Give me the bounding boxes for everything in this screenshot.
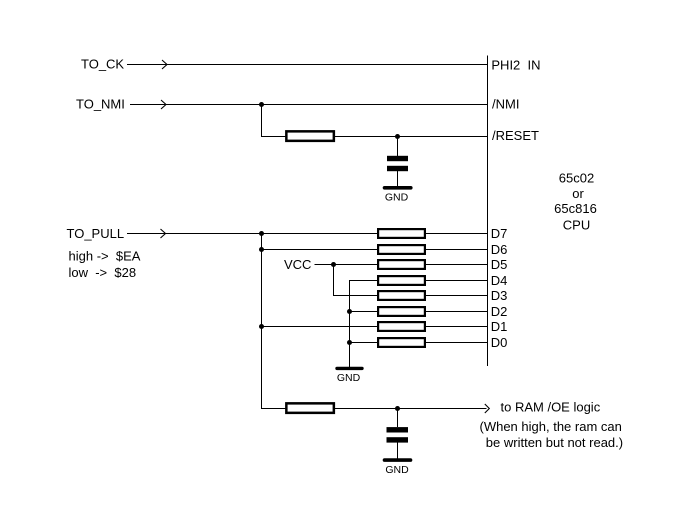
svg-text:D0: D0	[491, 335, 508, 350]
wire D6 right lead	[425, 249, 488, 251]
wire C1 to ground	[397, 171, 399, 186]
svg-text:D5: D5	[491, 257, 508, 272]
svg-text:low -> $28: low -> $28	[69, 265, 137, 280]
node junction NMI-RESET tap	[259, 102, 264, 107]
wire C2 to ground	[397, 443, 399, 459]
wire vertical from /NMI down to /RESET row	[261, 105, 263, 137]
node junction D1 tap	[259, 324, 264, 329]
svg-text:GND: GND	[337, 372, 361, 384]
wire D0 left lead	[349, 342, 378, 344]
wire TO_CK to PHI2 IN	[127, 64, 488, 66]
svg-text:CPU: CPU	[563, 217, 590, 232]
wire D4 right lead	[425, 280, 488, 282]
wire to resistor R1	[261, 136, 286, 138]
svg-text:(When high, the ram can: (When high, the ram can	[480, 419, 622, 434]
arrow to RAM /OE logic	[485, 404, 490, 413]
svg-text:TO_PULL: TO_PULL	[67, 226, 125, 241]
node junction reset cap tap	[395, 134, 400, 139]
ground GND (bus resistor pulldown)	[337, 368, 362, 383]
wire down to capacitor C2	[397, 409, 399, 428]
svg-text:D3: D3	[491, 288, 508, 303]
node junction VCC / D5	[331, 262, 336, 267]
node junction D6 tap	[259, 247, 264, 252]
wire R2 to RAM /OE logic	[335, 408, 487, 410]
svg-text:VCC: VCC	[284, 257, 311, 272]
svg-text:D1: D1	[491, 319, 508, 334]
CPU left-edge bus line	[487, 56, 489, 367]
svg-text:high -> $EA: high -> $EA	[69, 248, 141, 263]
arrow on TO_CK wire	[162, 60, 167, 69]
svg-text:PHI2 IN: PHI2 IN	[491, 58, 540, 73]
wire TO_PULL to D7 resistor	[127, 233, 378, 235]
wire R1 to /RESET pin	[335, 136, 488, 138]
resistor R2 (RAM /OE series)	[286, 403, 334, 413]
resistor RN D0	[378, 338, 425, 347]
wire VCC lead	[315, 264, 334, 266]
wire D3 right lead	[425, 295, 488, 297]
svg-text:D4: D4	[491, 273, 508, 288]
capacitor C2	[387, 427, 409, 443]
ground GND (reset cap)	[385, 188, 411, 204]
svg-text:TO_CK: TO_CK	[81, 57, 124, 72]
node junction bottom cap tap	[395, 406, 400, 411]
svg-text:/NMI: /NMI	[492, 97, 519, 112]
wire D1 left lead	[261, 326, 378, 328]
node junction TO_PULL / D7	[259, 231, 264, 236]
wire D5 left lead	[333, 264, 378, 266]
wire ground vertical x=349	[349, 281, 351, 368]
wire D2 left lead	[349, 311, 378, 313]
resistor RN D3	[378, 291, 425, 300]
capacitor C1	[387, 156, 408, 171]
wire D7 right lead	[425, 233, 488, 235]
ground GND (RAM /OE cap)	[385, 460, 411, 476]
svg-text:65c816: 65c816	[554, 201, 597, 216]
arrow on TO_PULL wire	[161, 229, 166, 238]
node junction D0 tap	[347, 340, 352, 345]
wire vertical bus tap x=261	[261, 234, 263, 409]
svg-text:or: or	[572, 186, 584, 201]
wire D1 right lead	[425, 326, 488, 328]
wire D2 right lead	[425, 311, 488, 313]
svg-text:D6: D6	[491, 242, 508, 257]
svg-text:/RESET: /RESET	[492, 128, 539, 143]
wire D5 right lead	[425, 264, 488, 266]
wire D4 left lead	[349, 280, 378, 282]
svg-text:GND: GND	[385, 464, 409, 476]
wire down to capacitor C1	[397, 137, 399, 157]
resistor RN D7	[378, 229, 425, 238]
resistor RN D1	[378, 322, 425, 331]
svg-text:GND: GND	[385, 192, 409, 204]
svg-text:65c02: 65c02	[559, 170, 594, 185]
svg-text:to RAM /OE logic: to RAM /OE logic	[501, 400, 601, 415]
arrow on TO_NMI wire	[161, 100, 166, 109]
wire VCC vertical to D3	[333, 265, 335, 296]
resistor RN D4	[378, 276, 425, 285]
resistor RN D2	[378, 307, 425, 316]
svg-text:be written but not read.): be written but not read.)	[486, 435, 623, 450]
resistor R1 (reset series)	[286, 131, 334, 141]
wire TO_NMI to /NMI	[130, 104, 488, 106]
svg-text:TO_NMI: TO_NMI	[76, 97, 125, 112]
node junction D2 tap	[347, 309, 352, 314]
wire D3 left lead	[333, 295, 378, 297]
wire D0 right lead	[425, 342, 488, 344]
resistor RN D6	[378, 245, 425, 254]
wire D6 left lead	[261, 249, 378, 251]
resistor RN D5	[378, 260, 425, 269]
label 65c02 or 65c816 CPU	[554, 170, 597, 232]
svg-text:D2: D2	[491, 304, 508, 319]
wire bottom corner to resistor R2	[261, 408, 286, 410]
svg-text:D7: D7	[491, 226, 508, 241]
